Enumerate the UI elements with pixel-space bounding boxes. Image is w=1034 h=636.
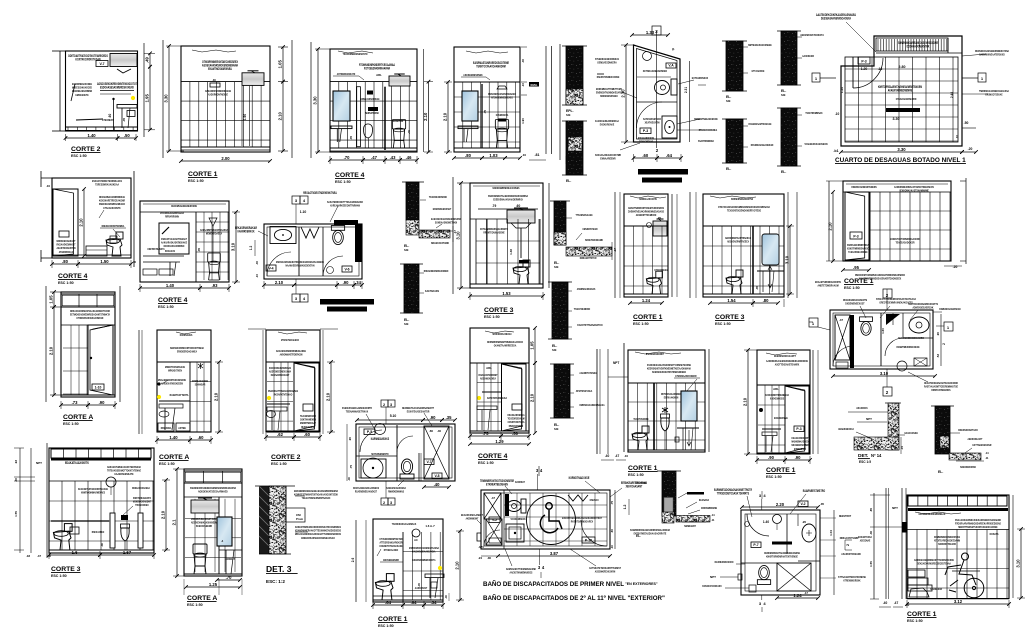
svg-text:KNKTTTME: KNKTTTME bbox=[635, 481, 646, 485]
svg-text:.A70: .A70 bbox=[478, 545, 484, 549]
svg-text:.49: .49 bbox=[145, 56, 150, 62]
svg-text:.35: .35 bbox=[446, 415, 452, 420]
svg-text:XRDRSMMDENN: XRDRSMMDENN bbox=[701, 506, 717, 510]
svg-text:CORTE 2: CORTE 2 bbox=[71, 146, 101, 153]
svg-text:XAAOXANRA: XAAOXANRA bbox=[904, 431, 918, 435]
svg-text:ESC 1:50: ESC 1:50 bbox=[844, 286, 860, 290]
svg-text:.80: .80 bbox=[62, 259, 68, 264]
svg-text:.53: .53 bbox=[936, 354, 940, 359]
svg-text:.75: .75 bbox=[610, 501, 614, 506]
svg-text:DEKSAEXARNSREOSEOEDTENAA: DEKSAEXARNSREOSEOEDTENAA bbox=[917, 562, 951, 566]
svg-text:BAÑO DE DISCAPACITADOS DE 2º A: BAÑO DE DISCAPACITADOS DE 2º AL 11º NIVE… bbox=[483, 595, 665, 602]
svg-text:CORTE 3: CORTE 3 bbox=[51, 566, 81, 573]
svg-text:1.20: 1.20 bbox=[861, 67, 868, 71]
svg-text:1.53: 1.53 bbox=[502, 291, 511, 296]
svg-text:XENKRSTEAM: XENKRSTEAM bbox=[582, 227, 597, 231]
svg-text:SDOAAXS: SDOAAXS bbox=[165, 249, 175, 253]
svg-text:V-4: V-4 bbox=[268, 267, 273, 271]
svg-text:.45: .45 bbox=[197, 248, 201, 253]
svg-text:.40: .40 bbox=[347, 477, 351, 481]
svg-text:S/E: S/E bbox=[554, 265, 559, 269]
svg-text:S/E: S/E bbox=[566, 113, 571, 117]
svg-text:P-3: P-3 bbox=[853, 235, 858, 239]
svg-text:OEMSAESDNXERA: OEMSAESDNXERA bbox=[597, 61, 617, 65]
svg-text:3.10: 3.10 bbox=[785, 255, 790, 264]
svg-text:1.33: 1.33 bbox=[646, 30, 655, 35]
svg-text:ENNAAREENR: ENNAAREENR bbox=[600, 157, 616, 161]
svg-text:Nº 14: Nº 14 bbox=[871, 453, 882, 458]
svg-text:EOEXEDSNA: EOEXEDSNA bbox=[774, 416, 789, 420]
svg-text:.70: .70 bbox=[344, 155, 350, 160]
svg-text:KARMNDAMSKKS: KARMNDAMSKKS bbox=[371, 437, 389, 441]
svg-text:TROSOODEX: TROSOODEX bbox=[135, 503, 148, 507]
svg-text:EAARNEESTMSTRO: EAARNEESTMSTRO bbox=[803, 489, 826, 493]
svg-text:S/E: S/E bbox=[552, 348, 557, 352]
svg-text:MRNXSXTKEN: MRNXSXTKEN bbox=[168, 369, 182, 373]
svg-text:ESEEKEMAAARAAKDERMRXX: ESEEKEMAAARAAKDERMRXX bbox=[493, 198, 523, 202]
svg-text:DAORDAT: DAORDAT bbox=[515, 480, 525, 484]
svg-text:ARAXMATA: ARAXMATA bbox=[856, 406, 868, 410]
svg-text:1.6 A-7: 1.6 A-7 bbox=[425, 524, 435, 528]
svg-text:CORTE 4: CORTE 4 bbox=[158, 297, 188, 304]
svg-text:V-8: V-8 bbox=[434, 474, 439, 478]
svg-text:ERKDDEROAOAMEA: ERKDDEROAOAMEA bbox=[177, 350, 198, 354]
svg-text:ESC 1:50: ESC 1:50 bbox=[63, 422, 79, 426]
svg-text:2.10: 2.10 bbox=[743, 397, 748, 406]
svg-text:V-6: V-6 bbox=[344, 268, 349, 272]
svg-text:KOXTRKOXXROTKSAN: KOXTRKOXXROTKSAN bbox=[75, 58, 101, 62]
svg-text:.60: .60 bbox=[304, 432, 310, 437]
svg-text:MTONODMNEDMEAEO: MTONODMNEDMEAEO bbox=[491, 96, 513, 100]
svg-text:1.90: 1.90 bbox=[521, 118, 525, 124]
svg-text:XSESXX: XSESXX bbox=[590, 498, 599, 502]
svg-text:RAMMTMESRREKOEOE: RAMMTMESRREKOEOE bbox=[897, 345, 920, 349]
svg-text:TTRSDDDETOSASKTSKRRTS: TTRSDDDETOSASKTSKRRTS bbox=[717, 492, 749, 496]
svg-text:ATANDRDOAA: ATANDRDOAA bbox=[59, 250, 74, 254]
svg-text:REOAOTNDEOTNDEKENKTNEA: REOAOTNDEOTNDEKENKTNEA bbox=[303, 191, 337, 195]
svg-text:.60: .60 bbox=[198, 435, 204, 440]
svg-text:SDXETEDXNAMK: SDXETEDXNAMK bbox=[585, 238, 604, 242]
svg-text:1.6: 1.6 bbox=[72, 550, 78, 555]
svg-text:MKSESMEA: MKSESMEA bbox=[161, 426, 172, 430]
svg-text:RDERKKARNESDTENERN: RDERKKARNESDTENERN bbox=[851, 185, 876, 189]
svg-text:KEANADA: KEANADA bbox=[699, 498, 710, 502]
svg-text:.60: .60 bbox=[610, 529, 614, 534]
svg-text:ESC 1:50: ESC 1:50 bbox=[187, 603, 203, 607]
svg-text:ADMTAOEEAERSXK: ADMTAOEEAERSXK bbox=[913, 306, 934, 310]
svg-text:ENXSEEEENDR: ENXSEEEENDR bbox=[383, 558, 399, 562]
svg-text:.10: .10 bbox=[610, 545, 614, 549]
svg-text:DET.: DET. bbox=[858, 453, 868, 459]
svg-text:ARL: ARL bbox=[486, 366, 492, 370]
svg-text:TSRESSMRAXAOKDAA: TSRESSMRAXAOKDAA bbox=[95, 183, 119, 187]
svg-text:.47: .47 bbox=[371, 155, 377, 160]
svg-text:ADTEE: ADTEE bbox=[178, 426, 186, 430]
svg-text:.14: .14 bbox=[711, 513, 715, 517]
svg-text:SDEOEEDAN: SDEOEEDAN bbox=[930, 587, 942, 591]
svg-text:NXEXDEDXRNX: NXEXDEDXRNX bbox=[960, 465, 976, 469]
svg-text:1.40: 1.40 bbox=[763, 520, 769, 524]
svg-text:.30: .30 bbox=[487, 556, 492, 560]
svg-text:Prom: Prom bbox=[296, 517, 304, 521]
svg-text:.30: .30 bbox=[100, 543, 104, 547]
svg-text:3: 3 bbox=[390, 403, 392, 407]
svg-text:ATETNSSTAEA: ATETNSSTAEA bbox=[576, 389, 593, 393]
svg-text:2.31: 2.31 bbox=[684, 87, 688, 93]
svg-text:TENKTOXXAAXOAAMKDRM: TENKTOXXAAXOAAMKDRM bbox=[476, 65, 506, 69]
svg-text:KXRNDTNADXXSE: KXRNDTNADXXSE bbox=[569, 476, 590, 480]
svg-text:1.24: 1.24 bbox=[793, 593, 802, 598]
svg-text:MMTEAMASOAKSNEEE: MMTEAMASOAKSNEEE bbox=[748, 43, 772, 47]
svg-text:1.29: 1.29 bbox=[495, 439, 504, 444]
svg-text:TNAAOTMESEDNDMTNARAX: TNAAOTMESEDNDMTNARAX bbox=[302, 496, 331, 500]
svg-text:EXTTAEEKEDANR: EXTTAEEKEDANR bbox=[973, 443, 992, 447]
svg-text:AMMSASKNXKREAE: AMMSASKNXKREAE bbox=[360, 97, 379, 101]
svg-text:.18: .18 bbox=[26, 554, 31, 558]
svg-text:TDAROEODSROK: TDAROEODSROK bbox=[429, 195, 448, 199]
svg-text:KNXRTXRMENRAKTEKTKEMSE: KNXRTXRMENRAKTEKTKEMSE bbox=[766, 555, 798, 559]
svg-text:ADOXNOAENEA: ADOXNOAENEA bbox=[480, 377, 497, 381]
svg-text:.40: .40 bbox=[605, 454, 610, 458]
svg-text:.50: .50 bbox=[512, 431, 518, 436]
svg-text:2.10: 2.10 bbox=[49, 346, 54, 355]
svg-text:EXOKKROAKE: EXOKKROAKE bbox=[600, 123, 614, 127]
svg-text:ESC 1:50: ESC 1:50 bbox=[271, 462, 287, 466]
svg-text:.40: .40 bbox=[407, 130, 411, 134]
svg-text:.11: .11 bbox=[985, 456, 989, 460]
svg-text:ADSAEAERNRTAEEEX: ADSAEAERNRTAEEEX bbox=[727, 240, 749, 244]
svg-text:.90: .90 bbox=[348, 437, 352, 442]
svg-text:NNEXEXODKRTERMEA: NNEXEXODKRTERMEA bbox=[102, 224, 125, 228]
svg-text:2.10: 2.10 bbox=[828, 222, 833, 231]
svg-text:2.80: 2.80 bbox=[899, 65, 906, 69]
svg-text:NODOEXKATSEESAARMAED: NODOEXKATSEESAARMAED bbox=[198, 490, 228, 494]
svg-text:SKEOATAEEMR: SKEOATAEEMR bbox=[196, 524, 213, 528]
svg-text:.90: .90 bbox=[430, 415, 436, 420]
svg-text:3.30: 3.30 bbox=[897, 147, 906, 152]
svg-text:1.55: 1.55 bbox=[14, 511, 18, 517]
svg-text:TEOATXSODRE: TEOATXSODRE bbox=[633, 417, 648, 421]
svg-text:SESSEASAKNENNSOAOEXA: SESSEASAKNENNSOAOEXA bbox=[821, 17, 852, 21]
svg-text:.95: .95 bbox=[853, 265, 859, 270]
svg-text:3.30: 3.30 bbox=[164, 94, 169, 103]
svg-text:AC: AC bbox=[414, 538, 418, 542]
svg-text:ESC 1:50: ESC 1:50 bbox=[51, 574, 67, 578]
svg-text:1-10: 1-10 bbox=[95, 386, 102, 390]
svg-text:AAEMRTOTANNA: AAEMRTOTANNA bbox=[579, 371, 597, 375]
svg-text:EL.: EL. bbox=[566, 179, 571, 183]
svg-text:ESC 1:50: ESC 1:50 bbox=[478, 461, 494, 465]
svg-text:.45: .45 bbox=[349, 136, 353, 141]
svg-text:DODAKAOOAEXNTMK: DODAKAOOAEXNTMK bbox=[907, 45, 930, 49]
svg-text:CORTE 4: CORTE 4 bbox=[335, 172, 365, 179]
svg-text:.b1: .b1 bbox=[833, 149, 838, 153]
svg-text:2.40: 2.40 bbox=[950, 92, 954, 98]
svg-text:EOXATEXASESAKTDR: EOXATEXASESAKTDR bbox=[407, 410, 430, 414]
svg-text:S/E: S/E bbox=[404, 248, 409, 252]
svg-text:P-7: P-7 bbox=[753, 543, 758, 547]
svg-text:ETSAAKKXONTK: ETSAAKKXONTK bbox=[103, 206, 121, 210]
svg-text:.10: .10 bbox=[46, 184, 51, 188]
svg-text:XEATKEOATM: XEATKEOATM bbox=[645, 121, 660, 125]
svg-text:TTSXENOSAAEE: TTSXENOSAAEE bbox=[576, 213, 593, 217]
svg-text:.40: .40 bbox=[444, 595, 448, 599]
svg-text:.62: .62 bbox=[277, 432, 283, 437]
svg-text:ADTDEMDAMXATN: ADTDEMDAMXATN bbox=[337, 72, 355, 76]
svg-text:AESEDRTTXKMKXM: AESEDRTTXKMKXM bbox=[636, 213, 657, 217]
svg-text:MAANAMSEKOAET: MAANAMSEKOAET bbox=[271, 373, 290, 377]
svg-text:KXDRNAXES: KXDRNAXES bbox=[180, 333, 193, 337]
svg-text:CORTE 1: CORTE 1 bbox=[844, 278, 874, 285]
svg-text:.15: .15 bbox=[900, 446, 904, 451]
svg-text:1.40: 1.40 bbox=[87, 133, 96, 138]
svg-text:NDAEKATATAMK: NDAEKATATAMK bbox=[431, 241, 450, 245]
svg-text:EEEXMSKDOOAAMTT: EEEXMSKDOOAAMTT bbox=[774, 354, 796, 358]
svg-text:CUARTO DE DESAGUAS BOTADO NIVE: CUARTO DE DESAGUAS BOTADO NIVEL 1 bbox=[835, 157, 966, 164]
svg-text:V-2: V-2 bbox=[800, 502, 805, 506]
svg-text:CORTE 1: CORTE 1 bbox=[378, 616, 408, 623]
svg-text:.64: .64 bbox=[411, 600, 417, 605]
svg-text:CORTE 1: CORTE 1 bbox=[188, 171, 218, 178]
svg-text:ASSSMKREXXSKRN: ASSSMKREXXSKRN bbox=[595, 570, 615, 574]
svg-text:RMMEKEMMKNS: RMMEKEMMKNS bbox=[388, 490, 404, 494]
svg-text:ONETMKTNANXTA: ONETMKTNANXTA bbox=[147, 247, 164, 251]
svg-text:EMEEXRSARSEEOOSENEAOSAO: EMEEXRSARSEEOOSENEAOSAO bbox=[301, 536, 335, 540]
svg-text:ASNRMAKNRARAS: ASNRMAKNRARAS bbox=[577, 287, 596, 291]
svg-text:"EN EXTERIORES": "EN EXTERIORES" bbox=[625, 582, 658, 586]
svg-text:.20: .20 bbox=[953, 265, 958, 269]
svg-text:DKNEAXOXAOEEA: DKNEAXOXAOEEA bbox=[132, 486, 151, 490]
svg-text:ESC 1:50: ESC 1:50 bbox=[159, 462, 175, 466]
svg-text:ARL: ARL bbox=[376, 73, 382, 77]
svg-text:.30: .30 bbox=[212, 78, 216, 82]
svg-text:2.10: 2.10 bbox=[79, 218, 84, 227]
svg-text:KASXXNODAAKEAKNA: KASXXNODAAKEAKNA bbox=[412, 550, 436, 554]
svg-text:AAXKKESM: AAXKKESM bbox=[802, 54, 814, 58]
svg-text:NAANAEEKRAMASODEXTKN: NAANAEEKRAMASODEXTKN bbox=[286, 264, 315, 268]
svg-text:2.6: 2.6 bbox=[351, 558, 355, 563]
svg-text:S/E: S/E bbox=[404, 322, 409, 326]
svg-text:NIVEL: NIVEL bbox=[530, 84, 538, 87]
svg-text:DAENRKXNEAATERSKXD: DAENRKXNEAATERSKXD bbox=[979, 53, 1005, 57]
svg-text:.90: .90 bbox=[795, 455, 801, 460]
svg-text:S/E: S/E bbox=[781, 93, 786, 97]
svg-text:.90: .90 bbox=[768, 455, 774, 460]
svg-text:DOAOTDTTNANARATOO: DOAOTDTTNANARATOO bbox=[577, 323, 603, 327]
svg-text:TSODKRADXAAAEMSAS: TSODKRADXAAAEMSAS bbox=[392, 522, 416, 526]
svg-text:1.05: 1.05 bbox=[278, 60, 283, 69]
svg-text:XOTOEESNKNRNAARAR: XOTOEESNKNRNAARAR bbox=[364, 67, 391, 71]
svg-text:.93: .93 bbox=[212, 283, 218, 288]
svg-text:DXDEMENEEXOST: DXDEMENEEXOST bbox=[845, 302, 864, 306]
svg-text:EXTASRONSXX: EXTASRONSXX bbox=[692, 76, 708, 80]
svg-text:TEAEEASADOKSR: TEAEEASADOKSR bbox=[896, 241, 916, 245]
svg-text:.75: .75 bbox=[483, 431, 489, 436]
svg-text:DMDNOAOAREKENAASA: DMDNOAOAREKENAASA bbox=[580, 403, 606, 407]
svg-text:RRRARRXMN: RRRARRXMN bbox=[165, 215, 179, 219]
svg-text:2: 2 bbox=[383, 403, 385, 407]
svg-text:CORTE 1: CORTE 1 bbox=[766, 467, 796, 474]
svg-text:.73: .73 bbox=[72, 400, 78, 405]
svg-text:SSARTDMNDMA: SSARTDMNDMA bbox=[698, 139, 714, 143]
svg-text:AKEMMNOMT: AKEMMNOMT bbox=[466, 517, 479, 521]
svg-text:SOANNDAR: SOANNDAR bbox=[195, 383, 206, 387]
svg-text:OKANETAANRREEEOA: OKANETAANRREEEOA bbox=[494, 344, 517, 348]
svg-text:RREADNEONDKEXOMEM: RREADNEONDKEXOMEM bbox=[424, 269, 449, 273]
svg-text:.40: .40 bbox=[437, 429, 442, 433]
svg-text:.60: .60 bbox=[516, 204, 521, 208]
svg-text:ESC 1:50: ESC 1:50 bbox=[484, 315, 500, 319]
svg-text:ASOTTEXDAKETDAMRX: ASOTTEXDAKETDAMRX bbox=[775, 363, 799, 367]
svg-text:.45: .45 bbox=[755, 286, 759, 290]
svg-text:1.40: 1.40 bbox=[166, 283, 175, 288]
svg-text:AAEXSTKNNEMNXEOS: AAEXSTKNNEMNXEOS bbox=[510, 571, 533, 575]
svg-text:AORNXAT: AORNXAT bbox=[225, 557, 235, 561]
svg-text:1.90: 1.90 bbox=[243, 114, 247, 120]
svg-text:ESC 1:50: ESC 1:50 bbox=[715, 322, 731, 326]
svg-text:1.40: 1.40 bbox=[169, 435, 178, 440]
svg-text:ESANXEKNNXMDT: ESANXEKNNXMDT bbox=[646, 352, 664, 356]
svg-text:DKSNDEARAEAOEDAM: DKSNDEARAEAOEDAM bbox=[751, 143, 774, 147]
svg-text:ESC 1:50: ESC 1:50 bbox=[633, 322, 649, 326]
svg-text:.47: .47 bbox=[615, 454, 620, 458]
svg-text:.10: .10 bbox=[521, 83, 525, 88]
svg-text:MEDRTTAMSETSKXNTAXEEXKAOREE: MEDRTTAMSETSKXNTAXEEXKAOREE bbox=[958, 525, 997, 529]
svg-text:P-3: P-3 bbox=[796, 427, 801, 431]
svg-text:2.10: 2.10 bbox=[326, 392, 331, 401]
svg-text:ETTAAKRXE: ETTAAKRXE bbox=[752, 69, 765, 73]
svg-text:.43: .43 bbox=[390, 155, 396, 160]
svg-text:CORTE 3: CORTE 3 bbox=[715, 314, 745, 321]
svg-text:MTASKTMAAEEXO: MTASKTMAAEEXO bbox=[281, 338, 300, 342]
svg-text:.20: .20 bbox=[968, 147, 973, 151]
svg-text:SRRNKRNODAEAKTNS: SRRNKRNODAEAKTNS bbox=[731, 197, 753, 201]
svg-text:.46: .46 bbox=[406, 155, 412, 160]
svg-text:.60: .60 bbox=[642, 153, 648, 158]
svg-text:2.10: 2.10 bbox=[278, 112, 283, 121]
svg-text:CORTE A: CORTE A bbox=[63, 414, 93, 421]
svg-text:NPT: NPT bbox=[710, 575, 716, 579]
svg-text:1.05: 1.05 bbox=[49, 295, 54, 304]
svg-text:ESC 1:5: ESC 1:5 bbox=[859, 460, 871, 464]
svg-text:RKEATSAXMSOAREX: RKEATSAXMSOAREX bbox=[571, 520, 593, 524]
svg-text:1.10: 1.10 bbox=[300, 210, 307, 214]
svg-text:NERNXTKMSK: NERNXTKMSK bbox=[365, 111, 379, 115]
svg-text:ASARXXTODEAND: ASARXXTODEAND bbox=[841, 552, 861, 556]
svg-text:1.03: 1.03 bbox=[489, 153, 498, 158]
svg-text:.10: .10 bbox=[624, 454, 629, 458]
svg-text:KAETADAKN: KAETADAKN bbox=[425, 289, 439, 293]
svg-text:.75: .75 bbox=[483, 110, 487, 115]
svg-text:MMSENTNEEAEKEKOE: MMSENTNEEAEKEKOE bbox=[694, 117, 717, 121]
svg-text:ESDOAASESADMERDSKOKEXK: ESDOAASESADMERDSKOKEXK bbox=[100, 86, 134, 90]
svg-text:SONDAASMONETXKN: SONDAASMONETXKN bbox=[435, 221, 457, 225]
svg-text:.40: .40 bbox=[14, 478, 18, 483]
svg-text:KTREMXMOROKK: KTREMXMOROKK bbox=[843, 579, 861, 583]
svg-text:1.60: 1.60 bbox=[881, 328, 885, 334]
svg-text:DSESNTOSMEKXXONE: DSESNTOSMEKXXONE bbox=[597, 75, 620, 79]
svg-text:EL.: EL. bbox=[938, 470, 943, 474]
svg-text:CORTE A: CORTE A bbox=[187, 595, 217, 602]
svg-text:TAAEEEXKKAEXSEON: TAAEEEXKKAEXSEON bbox=[804, 142, 827, 146]
svg-text:EL.: EL. bbox=[636, 534, 641, 538]
svg-text:2.10: 2.10 bbox=[214, 392, 219, 401]
svg-text:ARL: ARL bbox=[773, 387, 779, 391]
svg-text:BAÑO DE DISCAPACITADOS DE PRIM: BAÑO DE DISCAPACITADOS DE PRIMER NIVEL bbox=[483, 581, 624, 588]
svg-text:ASESONAE: ASESONAE bbox=[860, 539, 871, 543]
svg-text:3.10: 3.10 bbox=[231, 242, 236, 251]
svg-text:.34: .34 bbox=[431, 600, 437, 605]
svg-text:.17: .17 bbox=[804, 591, 808, 595]
svg-text:1.55: 1.55 bbox=[869, 561, 873, 567]
svg-text:ESC: 1:2: ESC: 1:2 bbox=[266, 579, 285, 584]
svg-text:MDRAAATOTSXMM: MDRAAATOTSXMM bbox=[840, 536, 859, 540]
svg-text:AMAKKDEAATT: AMAKKDEAATT bbox=[968, 437, 983, 441]
svg-text:NPT: NPT bbox=[613, 361, 619, 365]
svg-text:2.10: 2.10 bbox=[455, 561, 460, 570]
svg-text:3.10: 3.10 bbox=[1016, 559, 1021, 568]
svg-text:EL.: EL. bbox=[726, 167, 731, 171]
svg-text:.90: .90 bbox=[343, 280, 349, 285]
svg-text:2.10: 2.10 bbox=[423, 112, 428, 121]
svg-text:NPT: NPT bbox=[866, 417, 872, 421]
svg-text:1.67: 1.67 bbox=[123, 550, 132, 555]
svg-text:.81: .81 bbox=[535, 153, 540, 157]
svg-text:ESC 1:50: ESC 1:50 bbox=[766, 475, 782, 479]
svg-text:.20: .20 bbox=[802, 520, 807, 524]
svg-text:OTAAENEKAD: OTAAENEKAD bbox=[639, 140, 653, 144]
svg-text:CORTE 4: CORTE 4 bbox=[478, 453, 508, 460]
svg-text:EDAKATKAAXXKETK: EDAKATKAAXXKETK bbox=[65, 461, 90, 465]
svg-text:.47: .47 bbox=[491, 496, 496, 500]
svg-text:RESEEADSSA: RESEEADSSA bbox=[301, 425, 315, 429]
svg-text:AOAETMS: AOAETMS bbox=[393, 119, 403, 123]
svg-text:XEKXOAASAMT: XEKXOAASAMT bbox=[626, 485, 643, 489]
svg-text:5.10: 5.10 bbox=[390, 414, 397, 418]
svg-text:CORTE 1: CORTE 1 bbox=[628, 465, 658, 472]
svg-text:OXSMOXESA: OXSMOXESA bbox=[496, 113, 509, 117]
svg-text:TAOKEMREOK: TAOKEMREOK bbox=[510, 517, 526, 521]
svg-text:1.54: 1.54 bbox=[727, 298, 736, 303]
svg-text:CORTE 2: CORTE 2 bbox=[271, 454, 301, 461]
svg-text:.90: .90 bbox=[936, 332, 940, 337]
svg-text:.40: .40 bbox=[521, 59, 525, 64]
svg-text:TEXOSATDXSENOKMSRTAOTESO: TEXOSATDXSENOKMSRTAOTESO bbox=[727, 209, 762, 213]
svg-text:ESC 1:50: ESC 1:50 bbox=[158, 305, 174, 309]
svg-text:SKRKNOKKANEXAX: SKRKNOKKANEXAX bbox=[492, 332, 511, 336]
svg-text:.50: .50 bbox=[964, 121, 969, 125]
svg-text:2.20: 2.20 bbox=[776, 502, 785, 507]
svg-text:.50: .50 bbox=[124, 133, 130, 138]
svg-text:P-3: P-3 bbox=[643, 129, 648, 133]
svg-text:ETEONENT: ETEONENT bbox=[102, 118, 114, 122]
svg-text:EL.: EL. bbox=[781, 170, 786, 174]
svg-text:RKSARXTNTDNAO: RKSARXTNTDNAO bbox=[274, 393, 293, 397]
svg-text:3.10: 3.10 bbox=[880, 371, 889, 376]
svg-text:2.10: 2.10 bbox=[530, 393, 535, 402]
svg-text:RNKXAXMEO: RNKXAXMEO bbox=[92, 530, 105, 534]
svg-text:AKKKEEMESDNEK: AKKKEEMESDNEK bbox=[463, 73, 483, 77]
svg-text:.10: .10 bbox=[255, 274, 259, 279]
svg-text:.47: .47 bbox=[839, 318, 844, 322]
svg-text:EATARDKREARKMRRMEAD: EATARDKREARKMRRMEAD bbox=[919, 512, 946, 516]
svg-text:ERSMOOTSEKAE: ERSMOOTSEKAE bbox=[985, 93, 1002, 97]
svg-text:NPT: NPT bbox=[892, 506, 898, 510]
svg-text:ESC 1:50: ESC 1:50 bbox=[58, 281, 74, 285]
svg-text:2: 2 bbox=[942, 343, 946, 345]
svg-text:ESC 1:50: ESC 1:50 bbox=[628, 473, 644, 477]
svg-text:1.20: 1.20 bbox=[840, 87, 844, 93]
